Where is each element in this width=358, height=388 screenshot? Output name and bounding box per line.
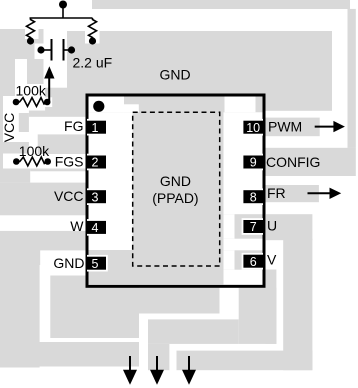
copper pour: V trace beside chip (265, 270, 276, 344)
white pocket: R1 right dot (43, 97, 52, 107)
svg-text:CONFIG: CONFIG (266, 154, 320, 170)
resistor R2 100k horizontal (16, 157, 47, 166)
node: resistor R2 left dot (13, 158, 20, 165)
copper pour: V trace leg (148, 344, 169, 370)
svg-text:2: 2 (92, 156, 99, 170)
copper pour: thin strip below FGS row (30, 169, 86, 172)
node: right resistor bottom dot (89, 37, 96, 44)
svg-text:6: 6 (250, 255, 257, 269)
white channel: interior left column (89, 112, 133, 250)
svg-text:V: V (267, 252, 277, 268)
pin 7 (242, 218, 263, 235)
copper pour: left column upper (0, 57, 15, 96)
arrow: bottom V phase (156, 356, 158, 372)
svg-text:1: 1 (92, 121, 99, 135)
copper pour: left mass below GND row (50, 276, 139, 339)
node: resistor R1 left dot (13, 99, 20, 106)
svg-text:(PPAD): (PPAD) (152, 190, 198, 206)
white channel: interior top right notch (225, 97, 256, 113)
pin 1 (87, 119, 108, 136)
svg-text:4: 4 (92, 221, 99, 235)
svg-text:8: 8 (250, 190, 257, 204)
svg-text:GND: GND (160, 67, 191, 83)
white pocket: left resistor bottom (25, 29, 39, 39)
arrow: FR output (308, 192, 332, 194)
pin 8 (242, 188, 263, 205)
resistor R1 100k horizontal (16, 98, 47, 107)
copper pour: V trace middle bar (148, 319, 239, 344)
svg-text:W: W (70, 218, 84, 234)
white channel: dot pocket step (124, 104, 139, 112)
node: resistor R2 right dot (44, 158, 51, 165)
svg-text:PWM: PWM (268, 119, 302, 135)
wire: capacitor left lead (41, 49, 51, 51)
copper pour: left block beside GND row (0, 250, 40, 265)
white channel: interior right column upper (224, 112, 263, 214)
svg-text:10: 10 (246, 121, 260, 135)
chip U1 body (87, 95, 264, 286)
pin 3 (87, 188, 108, 205)
svg-text:2.2 uF: 2.2 uF (73, 55, 113, 71)
node: top junction dot (59, 1, 67, 9)
svg-text:GND: GND (160, 173, 191, 189)
svg-text:GND: GND (53, 255, 84, 271)
node: capacitor right dot (68, 46, 75, 53)
copper pour: U trace band (266, 214, 313, 240)
copper pour: block under top-left (27, 57, 44, 84)
copper pour: main GND plane top (67, 31, 332, 111)
white channel: beside V stub (224, 250, 235, 269)
copper pour: GND plane under chip (87, 288, 220, 314)
chip interior copper base (89, 97, 263, 285)
pin 4 (87, 219, 108, 236)
svg-text:9: 9 (250, 156, 257, 170)
copper pour: CONFIG trace strip (266, 148, 356, 176)
copper pour: neck band above FG row (29, 111, 87, 117)
arrow: VCC up arrow (48, 78, 50, 101)
copper pour: band between VCC label and resistor2 (0, 142, 29, 154)
pin1 indicator dot (93, 101, 104, 112)
copper pour: sliver left of resistor1 (0, 96, 3, 111)
wire: top junction vertical (62, 5, 64, 19)
node: capacitor left dot (37, 46, 44, 53)
pin 2 (87, 154, 108, 171)
copper pour: block between FG and FGS rows (38, 134, 87, 154)
copper pour: U trace column (283, 239, 312, 371)
resistor right vertical (89, 18, 97, 39)
copper pour: band between W and GND rows (0, 231, 87, 251)
copper pour: top GND strip (92, 0, 350, 9)
copper pour: bottom-left strip (0, 342, 139, 367)
white pocket: capacitor left dot (35, 44, 45, 60)
PPAD dashed rectangle (133, 112, 220, 266)
arrow: bottom W phase (129, 356, 131, 372)
white channel: below V stub (224, 270, 263, 285)
svg-text:100k: 100k (16, 82, 47, 98)
copper pour: right vertical bar (348, 9, 356, 148)
node: left resistor bottom dot (27, 37, 34, 44)
copper pour: bottom strip to arrow3 (177, 351, 313, 371)
arrow: PWM output (315, 126, 335, 128)
white channel: pin1 dot pocket (89, 97, 125, 113)
copper pour: sliver left of VCC label (0, 111, 3, 169)
pin 10 (242, 119, 263, 136)
svg-text:FGS: FGS (55, 154, 84, 170)
copper pour: V trace under chip (239, 288, 277, 344)
copper pour: top-left block (0, 29, 44, 59)
svg-text:FR: FR (267, 185, 286, 201)
svg-text:5: 5 (92, 257, 99, 271)
white channel: between U and V stubs (224, 239, 263, 251)
capacitor C1 left plate (51, 39, 53, 61)
svg-text:VCC: VCC (54, 188, 84, 204)
copper pour: tongue right of R1 (45, 88, 67, 111)
arrow: bottom U phase (188, 356, 190, 372)
svg-text:VCC: VCC (1, 113, 17, 143)
white pocket: right resistor bottom (85, 31, 100, 44)
copper pour: FR trace strip (266, 185, 319, 202)
wire: capacitor right lead (65, 49, 72, 51)
pin 9 (242, 154, 263, 171)
pin 6 (242, 253, 263, 270)
node: resistor R1 right dot (44, 99, 51, 106)
copper pour: VCC pin row block (0, 183, 87, 216)
pin 5 (87, 255, 108, 272)
wire: top horizontal (30, 17, 93, 19)
capacitor C1 right plate (63, 39, 65, 61)
white channel: top right inner sliver gap (261, 97, 262, 113)
svg-text:3: 3 (92, 190, 99, 204)
copper pour: left column lower (0, 265, 40, 368)
svg-text:FG: FG (64, 118, 83, 134)
copper pour: column right of VCC label (19, 113, 29, 132)
resistor left vertical (27, 18, 35, 39)
copper pour: PWM trace strip (266, 118, 320, 137)
svg-text:7: 7 (250, 220, 257, 234)
svg-text:U: U (267, 218, 277, 234)
white channel: beside U stub (224, 214, 235, 239)
copper pour: left block below FGS row (0, 169, 30, 183)
